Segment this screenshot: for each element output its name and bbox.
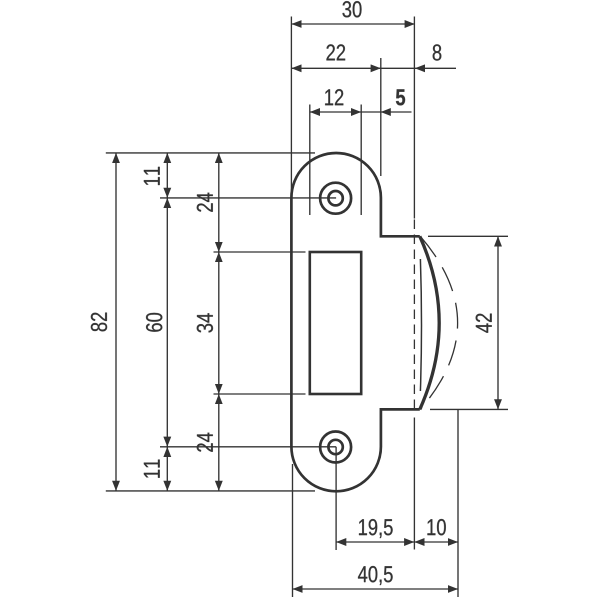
label 30	[342, 1, 361, 17]
extension line plate left bottom vertical	[292, 464, 294, 597]
latch rectangular hole	[310, 252, 361, 394]
extension line top hole center horizontal	[160, 197, 336, 199]
dimension line 34	[218, 252, 220, 394]
label 10	[427, 519, 445, 535]
extension line 12 left vertical	[309, 105, 311, 216]
label 42	[476, 314, 492, 333]
extension line 42 top horizontal	[428, 235, 508, 237]
extension line below bend line vertical	[413, 418, 415, 550]
dimension line 24 bottom	[218, 394, 220, 491]
lip inner edge arc	[420, 259, 421, 391]
dimension line 11 top	[166, 153, 168, 198]
extension line bottom hole center horizontal	[160, 446, 336, 448]
label 22	[326, 44, 345, 60]
dimension line 60	[166, 198, 168, 447]
extension line rect hole top horizontal	[214, 251, 306, 253]
extension line 22 right vertical	[380, 58, 382, 176]
dimension line 22-30 gap	[381, 67, 415, 69]
dimension line 24 top	[218, 153, 220, 252]
label 11 top	[144, 167, 160, 185]
label 5	[396, 89, 405, 105]
extension line top left vertical	[290, 17, 292, 198]
lip outer curve	[420, 236, 439, 409]
extension line 30 right vertical solid part	[413, 17, 415, 219]
extension line 40.5 right vertical	[457, 409, 459, 597]
top screw hole inner	[328, 191, 342, 205]
dimension line 30	[291, 23, 414, 25]
label 24 top	[197, 193, 213, 212]
bottom screw hole outer	[320, 432, 351, 463]
bend line dashed	[413, 220, 415, 409]
label 34	[197, 313, 213, 332]
dimension line 82	[115, 153, 117, 491]
dimension line 11 bottom	[166, 447, 168, 491]
label 19,5	[359, 519, 393, 538]
extension line plate top horizontal	[106, 152, 315, 154]
dimension line 10	[414, 541, 458, 543]
bottom screw hole inner	[328, 440, 342, 454]
dimension line 12-22 gap	[361, 111, 380, 113]
dimension line 22	[291, 67, 380, 69]
label 11 bottom	[144, 460, 160, 478]
lip alternate position dashed arc	[420, 236, 457, 409]
label 82	[91, 313, 107, 332]
label 12	[325, 89, 343, 105]
label 8	[433, 44, 442, 60]
extension line 12 right vertical	[360, 105, 362, 216]
extension line bottom hole center vertical	[335, 447, 337, 550]
dimension arrow 5	[381, 111, 412, 113]
top screw hole outer	[320, 183, 351, 214]
dimension line 40,5	[293, 588, 459, 590]
label 24 bottom	[197, 433, 213, 452]
extension line rect hole bottom horizontal	[214, 393, 306, 395]
dimension arrow 8	[415, 67, 456, 69]
extension line plate bottom horizontal	[106, 490, 315, 492]
dimension line 42	[497, 236, 499, 409]
plate outline	[291, 153, 419, 491]
extension line 42 bottom horizontal	[430, 408, 508, 410]
label 40,5	[358, 566, 393, 585]
dimension line 19,5	[336, 541, 414, 543]
dimension line 12	[310, 111, 361, 113]
label 60	[146, 313, 162, 332]
